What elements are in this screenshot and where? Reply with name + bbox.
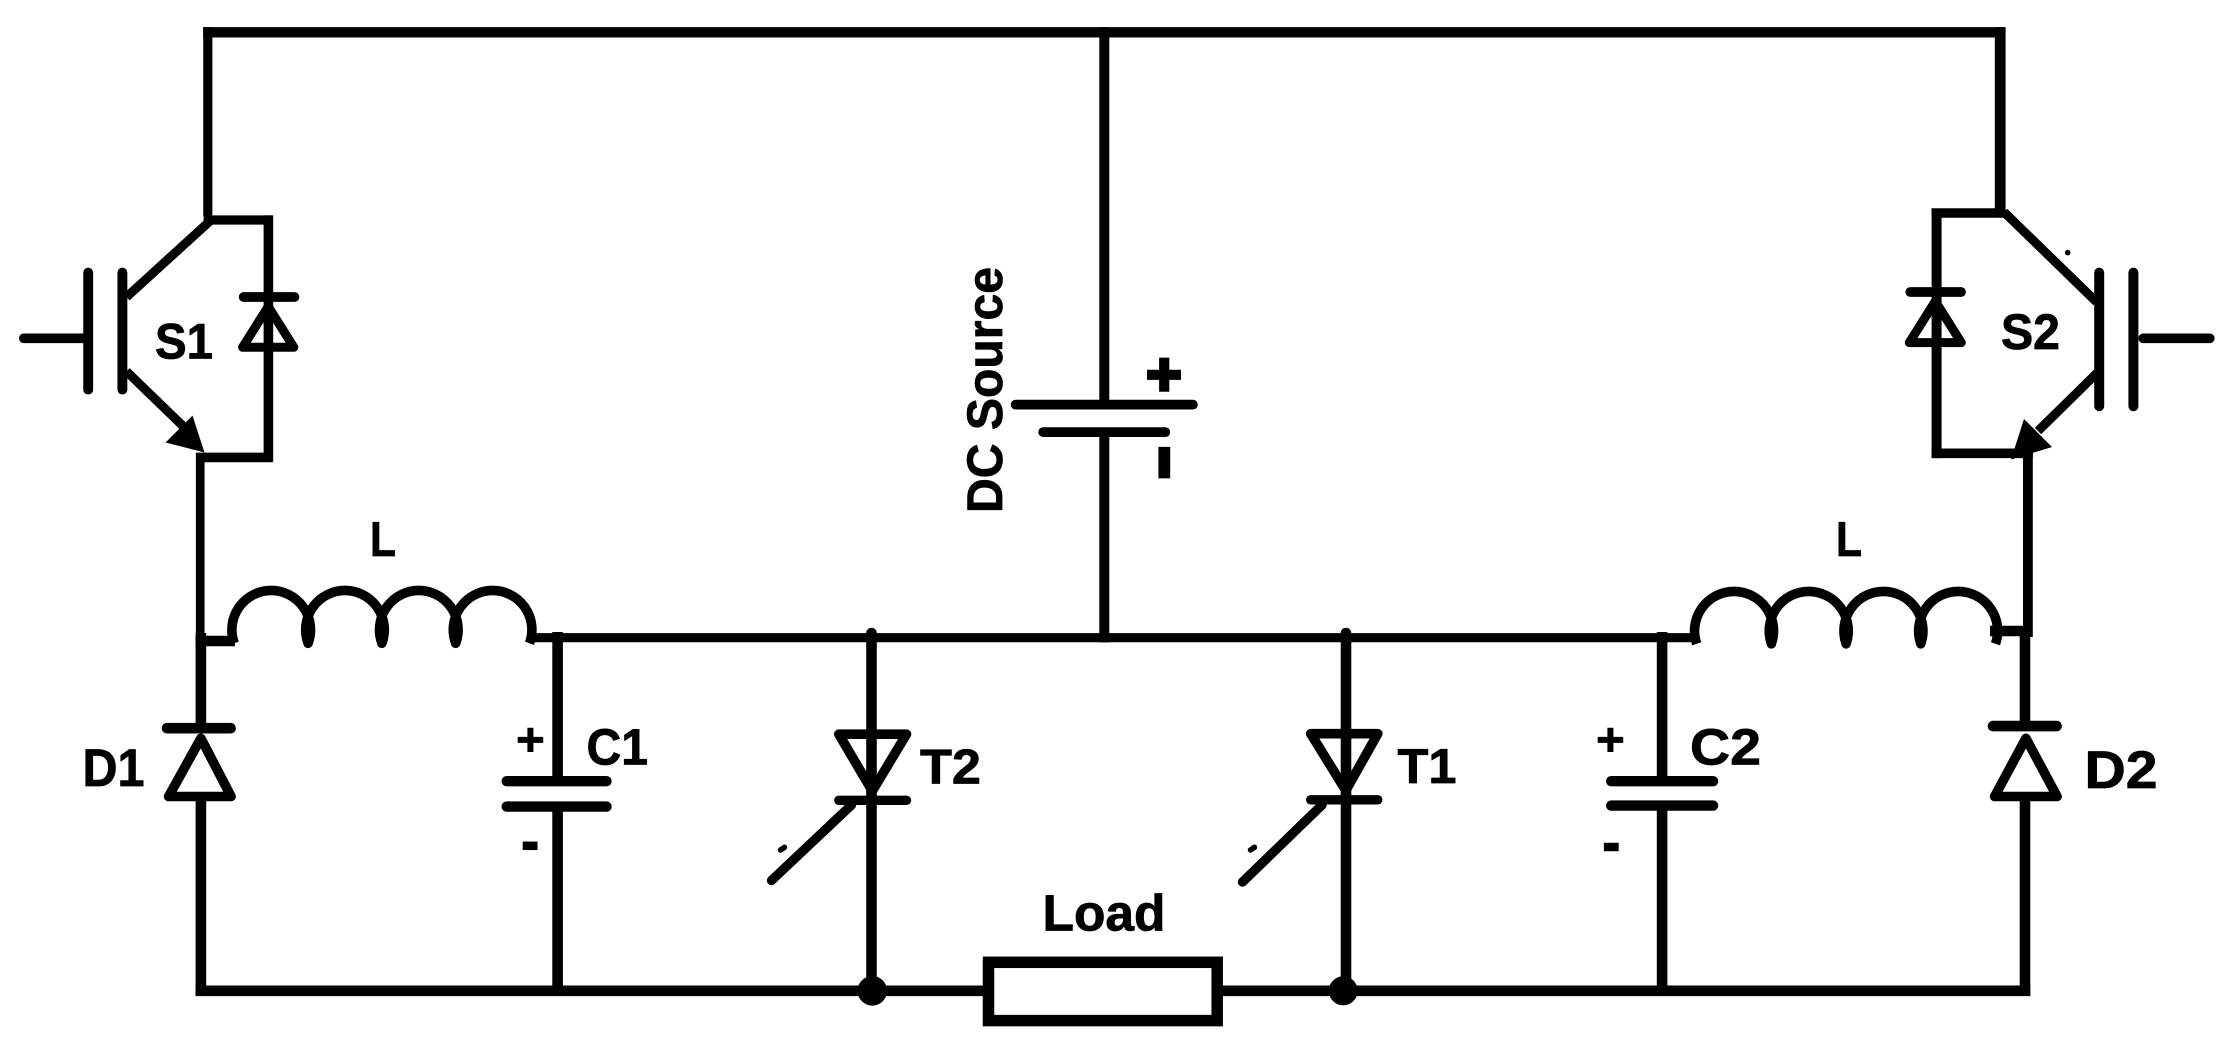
transistor S1 body bar	[117, 273, 127, 390]
transistor S2 body bar	[2094, 273, 2104, 407]
diode of S2 cathode bar	[1910, 287, 1961, 297]
battery DC source top plate	[1016, 400, 1193, 410]
inductor L right coil	[1695, 591, 1998, 643]
svg-text:T2: T2	[920, 741, 981, 795]
wire middle bus	[529, 633, 1697, 642]
wire bottom bus	[196, 985, 2031, 996]
thyristor T2 vertical wire	[866, 633, 877, 990]
capacitor C2 minus sign	[1604, 843, 1619, 852]
diode of S1 triangle	[243, 307, 294, 348]
diode D2 bottom vertical	[2020, 796, 2031, 996]
thyristor T1 gate tick	[1251, 847, 1255, 850]
svg-text:T1: T1	[1398, 740, 1457, 794]
transistor S2 emitter diagonal	[2038, 373, 2097, 431]
thyristor T1 gate lead	[1243, 805, 1323, 882]
thyristor T2 gate tick	[781, 847, 785, 850]
transistor S2 collector diagonal	[2004, 212, 2097, 302]
capacitor C2 top vertical	[1657, 632, 1668, 778]
thyristor T1 vertical wire	[1341, 633, 1352, 990]
stray ink speckle near S2	[2065, 250, 2071, 256]
wire top bus	[203, 27, 2005, 37]
svg-text:S1: S1	[155, 314, 213, 370]
wire middle bus left stub	[196, 636, 236, 647]
transistor S1 emitter diagonal	[127, 371, 186, 428]
wire middle bus right stub	[1990, 626, 2032, 637]
wire S2 collector drop (top-right vertical)	[1995, 27, 2006, 211]
capacitor C1 top vertical	[552, 632, 563, 778]
battery DC source minus sign	[1158, 447, 1170, 479]
capacitor C1 plus sign	[518, 728, 544, 752]
wire DC source bottom vertical	[1099, 432, 1109, 642]
transistor S1 collector diagonal	[127, 221, 211, 297]
svg-text:S2: S2	[2001, 304, 2060, 360]
transistor S2 gate bar	[2128, 273, 2138, 407]
transistor S1 bottom horizontal	[196, 453, 273, 463]
capacitor C1 bottom plate	[507, 801, 607, 811]
capacitor C2 bottom vertical	[1657, 810, 1668, 996]
capacitor C2 plus sign	[1598, 728, 1624, 752]
wire S2 diode branch vertical	[1932, 209, 1942, 459]
capacitor C1 top plate	[507, 776, 607, 786]
battery DC source plus sign	[1147, 358, 1181, 392]
transistor S2 bottom horizontal	[1932, 448, 2033, 458]
transistor S1 emitter arrowhead	[166, 416, 205, 453]
svg-text:C1: C1	[587, 719, 649, 776]
transistor S1 gate bar	[83, 273, 93, 390]
diode D2 top vertical	[2020, 629, 2031, 724]
transistor S2 emitter arrowhead	[2011, 419, 2052, 460]
capacitor C2 top plate	[1611, 776, 1713, 786]
transistor S1 top horizontal	[204, 215, 273, 224]
diode D1 triangle	[169, 738, 232, 796]
svg-text:L: L	[1836, 513, 1862, 567]
node T1-load junction dot	[1329, 976, 1358, 1005]
diode D1 cathode bar	[167, 723, 231, 734]
node T2-load junction dot	[858, 976, 888, 1006]
wire S1 diode branch vertical	[264, 215, 274, 461]
diode of S2 triangle	[1909, 301, 1961, 342]
thyristor T2 triangle	[839, 734, 907, 791]
capacitor C1 bottom vertical	[552, 810, 563, 996]
wire S1 collector drop (top-left vertical)	[203, 27, 212, 216]
wire DC source top vertical	[1099, 27, 1109, 405]
thyristor T1 cathode bar	[1311, 795, 1378, 804]
transistor S2 top horizontal	[1932, 208, 2006, 218]
svg-text:L: L	[370, 513, 396, 567]
svg-text:C2: C2	[1690, 719, 1761, 776]
svg-text:DC Source: DC Source	[957, 267, 1013, 513]
thyristor T1 triangle	[1311, 734, 1378, 791]
svg-text:Load: Load	[1043, 885, 1166, 942]
diode D2 cathode bar	[1993, 721, 2057, 732]
diode D2 triangle	[1995, 738, 2058, 796]
transistor S1 gate lead	[24, 333, 84, 343]
capacitor C2 bottom plate	[1611, 800, 1713, 810]
inductor L left coil	[232, 590, 532, 643]
battery DC source bottom plate	[1043, 427, 1165, 437]
resistor Load rectangle	[989, 962, 1218, 1020]
diode D1 bottom vertical	[196, 796, 207, 996]
diode of S1 cathode bar	[244, 292, 295, 302]
wire S2 emitter to inductor	[2023, 449, 2033, 637]
capacitor C1 minus sign	[523, 842, 538, 851]
svg-text:D2: D2	[2085, 741, 2158, 800]
thyristor T2 gate lead	[772, 805, 852, 881]
transistor S2 gate lead	[2143, 333, 2210, 343]
wire S1 emitter to inductor	[196, 453, 205, 643]
svg-text:D1: D1	[83, 739, 145, 798]
diode D1 top vertical	[196, 633, 207, 726]
thyristor T2 cathode bar	[839, 796, 907, 805]
